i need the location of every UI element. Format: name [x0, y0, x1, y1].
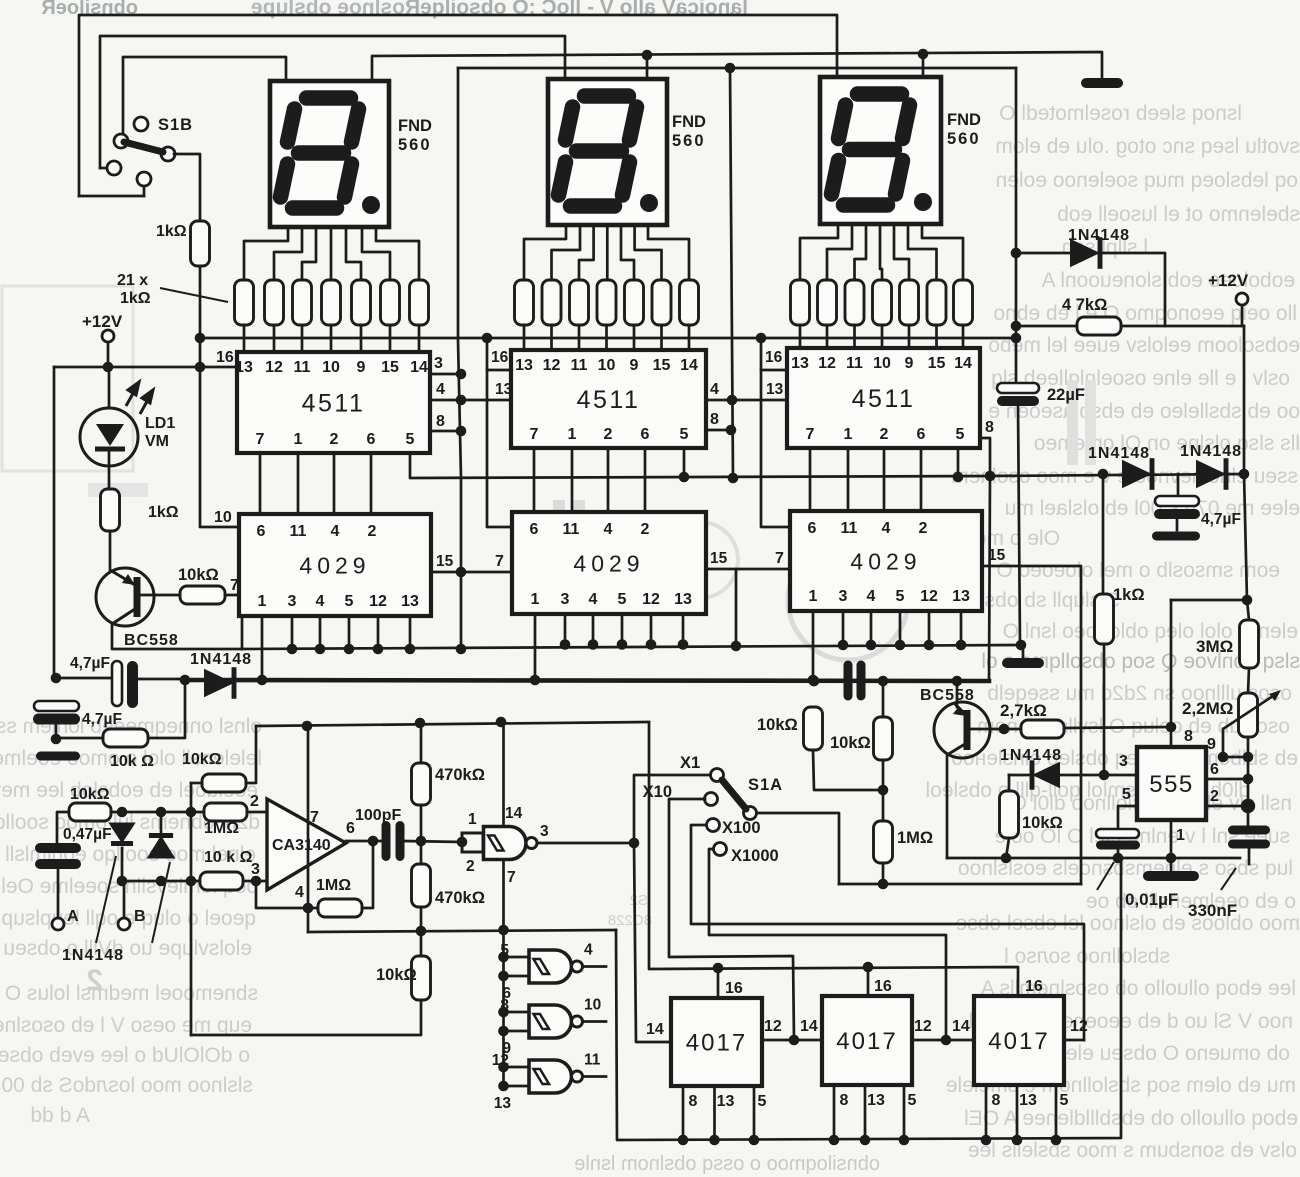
wire 4017#2 pin 8 to bottom bus [833, 1085, 836, 1140]
wire analog gnd rail (y=931) [308, 930, 616, 932]
resistor 1M (timing) [874, 821, 893, 863]
svg-text:11: 11 [294, 359, 311, 376]
junction dot left rail / clock line [51, 673, 62, 684]
svg-text:13: 13 [235, 359, 253, 376]
wire clock line thick segment [185, 680, 989, 681]
wire bank2 resistor #4 to 4511 [605, 325, 608, 350]
wire D-left to pin3 line [121, 848, 124, 881]
svg-text:10k Ω: 10k Ω [110, 753, 154, 770]
svg-text:11: 11 [290, 523, 307, 540]
wire 4511#3 pin 2 to 4029#3 pin 4 [883, 448, 886, 511]
wire 3M line to 555 pin8 riser [1171, 599, 1247, 602]
svg-text:4029: 4029 [299, 552, 370, 578]
wire VDD rail y=338 [200, 337, 1016, 340]
wire bank2 display pin 6 fan [635, 225, 662, 280]
junction dot pin3/x461 [456, 369, 467, 380]
wire bank1 display pin 6 fan [362, 227, 390, 280]
wire bank3 resistor #7 to 4511 [962, 325, 965, 350]
junction dot pin5 bus 4511#3 [953, 472, 964, 483]
svg-text:10kΩ: 10kΩ [830, 734, 871, 752]
svg-text:FND: FND [947, 111, 981, 129]
transistor Q2 BC558 (PNP) [934, 702, 990, 758]
svg-text:14: 14 [680, 357, 698, 374]
wire 1M to opamp pin2 [247, 811, 267, 814]
svg-text:4017: 4017 [836, 1028, 897, 1055]
wire BC558 base to 10k [137, 594, 180, 597]
wire bank2 display pin 2 fan [552, 225, 581, 280]
wire 4029#2 pin1 to clock line [534, 614, 537, 680]
junction dot U2b in1 [498, 952, 509, 963]
wire wiper to pot bottom [1223, 756, 1248, 759]
junction dot 4017#2 pin 13 bus [860, 1135, 871, 1146]
junction dot pin4 node [303, 903, 314, 914]
potentiometer 2.2M body [1239, 693, 1258, 737]
transistor Q1 BC558 (PNP) [96, 568, 154, 626]
wire 10k to 4029#1 pin7 [225, 594, 239, 597]
junction dot 4029#1 pin 4 bus [315, 644, 326, 655]
IC 4017 #1 (decade counter) [671, 998, 762, 1086]
wire bank3 display pin 3 fan [855, 224, 867, 280]
svg-text:2: 2 [1210, 788, 1219, 805]
resistor 1k bank bank3 #1 [791, 280, 810, 325]
svg-text:10: 10 [214, 509, 232, 526]
svg-text:eboq olluollo ob ebsbllldlenee: eboq olluollo ob ebsbllldlenee A OEl [964, 1107, 1298, 1130]
svg-text:slslnoo moo losлdoS sb 00SlOlU: slslnoo moo losлdoS sb 00SlOlUd [0, 1074, 253, 1097]
svg-text:X1: X1 [680, 754, 700, 772]
wire pin3 node down to feedback [256, 881, 318, 908]
wire feedback to output [362, 841, 373, 908]
wire 10k#1 to clock line [148, 680, 185, 738]
wire bank2 display pin 4 straight [606, 225, 609, 280]
wire S1B chain to 4029#1 pin10 [200, 367, 239, 527]
junction dot +12V column/diode line [1239, 469, 1250, 480]
junction dot 4017#3 pin 5 bus [1051, 1135, 1062, 1146]
wire 0.47uF to A terminal [57, 869, 60, 918]
wire 10kB bottom to 790 node [882, 760, 885, 790]
pin labels of 4511 #1 [235, 359, 428, 448]
junction dot 790/10kB column [878, 785, 889, 796]
gate U2a Schmitt NAND (pins 1,2 -> 3) [484, 827, 527, 860]
wire 10k#4 top [420, 931, 423, 956]
junction dot Q2 base node [999, 724, 1010, 735]
svg-text:4: 4 [436, 381, 445, 398]
svg-text:7: 7 [806, 426, 815, 443]
ghost box outline left edge [2, 286, 133, 471]
resistor 1k bank bank2 #3 [570, 280, 589, 325]
wire 555 pin5 to 0.01uF [1118, 806, 1137, 829]
svg-text:X10: X10 [643, 783, 672, 801]
wire 10k#2 left to bias column [191, 782, 202, 785]
wire bank2 resistor #7 to 4511 [688, 325, 691, 350]
diode 1N4148 D-left (down) [108, 823, 135, 844]
svg-text:1MΩ: 1MΩ [204, 820, 239, 837]
wire carry2 drop to gnd bus [735, 569, 738, 646]
svg-text:12: 12 [265, 359, 283, 376]
svg-text:BC558: BC558 [920, 687, 975, 704]
junction dot gate column / gnd rail [498, 925, 509, 936]
wire 4511#3 pin 1 to 4029#3 pin 11 [847, 448, 850, 511]
wire X10 routing [669, 799, 794, 1040]
resistor 1k bank bank3 #7 [954, 280, 973, 325]
junction dot 4029#3 pin1 clock line [808, 675, 819, 686]
pin labels 8/13/5 of 4017#2 [840, 1092, 917, 1109]
wire 10kB top to clock line [882, 681, 885, 717]
svg-text:5: 5 [956, 426, 965, 443]
switch S1B contact C [107, 161, 121, 175]
resistor 1k bank bank1 #1 [235, 280, 254, 325]
svg-text:7: 7 [530, 426, 539, 443]
wire bank3 display pin 5 fan [894, 224, 909, 280]
wire 4511#1 pin3 stub [430, 373, 461, 376]
junction dot pin8/2.7k [1166, 722, 1177, 733]
junction dot 4017#3 pin 8 bus [981, 1135, 992, 1146]
resistor 10k (Q2) [1000, 791, 1019, 838]
svg-text:1N4148: 1N4148 [190, 651, 252, 668]
resistor 1k bank bank2 #4 [597, 280, 616, 325]
svg-text:560: 560 [672, 132, 706, 150]
wire bank3 resistor #3 to 4511 [853, 325, 856, 350]
pin labels of 4029 #3 [808, 520, 970, 605]
junction dot clock/10kC column [878, 676, 889, 687]
svg-text:6: 6 [257, 523, 266, 540]
wire bias column x=191 [190, 783, 193, 1035]
svg-text:3: 3 [540, 823, 549, 840]
junction dot clock/10kA riser [809, 676, 820, 687]
diode 1N4148 (clock line) [204, 669, 234, 697]
svg-text:5: 5 [758, 1093, 767, 1110]
svg-text:0,47µF: 0,47µF [63, 826, 112, 843]
wire bank1 resistor #7 to 4511 [418, 325, 421, 352]
svg-text:14: 14 [646, 1021, 664, 1038]
svg-text:2: 2 [330, 431, 339, 448]
capacitor 22uF (solid plate) [997, 396, 1039, 406]
junction dot 4029#2 pin1 clock line [530, 675, 541, 686]
wire 47k to +12V [1121, 325, 1244, 328]
junction dot 4029#1 pin1 clock line [257, 675, 268, 686]
wire 4029#2 pin 13 to gnd bus [682, 614, 685, 645]
wire vertical x=461 (4511#1 pins 3/4/8 tie) [458, 68, 461, 649]
svg-text:10kΩ: 10kΩ [178, 566, 219, 584]
svg-text:2,7kΩ: 2,7kΩ [1000, 701, 1047, 720]
svg-text:2: 2 [368, 523, 377, 540]
7-segment display DISP3 (FND 560) [820, 77, 941, 224]
wire U2c input stub 1 [504, 1011, 530, 1014]
svg-text:4 7kΩ: 4 7kΩ [1062, 296, 1107, 314]
junction dot pin6/timing column [1243, 774, 1254, 785]
svg-text:1: 1 [1176, 827, 1185, 844]
wire 4029#1 pin8 stub to bus [241, 616, 244, 649]
svg-text:eom smsoslb o mel oloeoeo O: eom smsoslb o mel oloeoeo O [996, 559, 1280, 582]
capacitor 4.7uF series left (open plate) [112, 661, 122, 706]
wire 4511#2 pin 6 to 4029#2 pin 2 [644, 448, 647, 512]
svg-text:FND: FND [398, 117, 432, 135]
wire 4017#1 pin 5 to bottom bus [753, 1086, 756, 1140]
svg-text:11: 11 [584, 1052, 601, 1069]
svg-text:llo oelq eeonoqmo O e l eb ebn: llo oelq eeonoqmo O e l eb ebno [993, 302, 1297, 325]
svg-text:12: 12 [914, 1018, 932, 1035]
wire bank3 resistor #6 to 4511 [935, 325, 938, 350]
junction dot pin4#2/x730 [727, 395, 738, 406]
junction dot U2d in1 [498, 1062, 509, 1073]
wire 4029#1 pin15 to 4029#2 pin7 [431, 571, 512, 574]
capacitor (series on clock line right) [844, 661, 853, 701]
svg-text:1: 1 [468, 811, 477, 828]
wire diode to +12V corner [1016, 253, 1165, 326]
junction dot x1016 diode line [1011, 248, 1022, 259]
capacitor 0.01uF (solid plate) [1096, 841, 1140, 850]
wire bank3 resistor #1 to 4511 [799, 325, 802, 350]
IC 4017 #3 (decade counter) [974, 996, 1064, 1085]
svg-text:oq lebsloeq muq soelenoo eolen: oq lebsloeq muq soelenoo eolen [996, 169, 1298, 192]
resistor 10k #2 [202, 774, 246, 792]
wire bank2 display pin 7 fan [648, 225, 689, 280]
svg-text:3: 3 [434, 355, 443, 372]
junction dot rail338 x=487 [482, 333, 493, 344]
resistor 1k bank bank3 #3 [845, 280, 864, 325]
svg-text:4: 4 [295, 884, 304, 901]
ghost circle shape 1 [788, 540, 908, 660]
wire 4017#2 pin 5 to bottom bus [903, 1085, 906, 1140]
svg-text:13: 13 [401, 593, 419, 610]
capacitor 100pF [382, 821, 391, 861]
wire 2.7k to 555 pin8 [1064, 727, 1171, 728]
resistor 1k bank bank2 #6 [652, 280, 671, 325]
junction dot D-right bottom [156, 876, 167, 887]
switch S1B contact B [114, 134, 128, 148]
svg-text:svotlu lseq snc otog .olu eb e: svotlu lseq snc otog .olu eb elom [995, 135, 1300, 158]
svg-text:6: 6 [1210, 761, 1219, 778]
svg-text:+12V: +12V [1208, 271, 1249, 290]
pin labels of 4511 #3 [791, 355, 972, 443]
wire 4511#3 pin16 stub [761, 369, 787, 372]
svg-text:8: 8 [840, 1092, 849, 1109]
wire 555 pin3 stub [1104, 774, 1137, 777]
svg-text:15: 15 [928, 355, 946, 372]
wire clock line right end drop [989, 476, 990, 681]
diode 1N4148 (555 pin3) [1032, 762, 1060, 789]
svg-text:eup me oeso V l eb ososlnemlls: eup me oeso V l eb ososlnemlls [0, 1014, 252, 1037]
svg-text:1N4148: 1N4148 [1088, 445, 1150, 462]
capacitor 4.7uF vertical (solid plate) [33, 714, 80, 725]
terminal +12V right [1236, 293, 1248, 305]
svg-text:9: 9 [905, 355, 914, 372]
wire U2d input stub 1 [504, 1066, 530, 1069]
resistor 10k #3 (pin3) [200, 872, 243, 890]
svg-text:2: 2 [641, 521, 650, 538]
pointer line to D-right [152, 862, 170, 943]
svg-text:13: 13 [791, 355, 809, 372]
junction dot bias/pin3 line [186, 876, 197, 887]
resistor 1k bank bank1 #6 [381, 280, 400, 325]
wire left rail to 10k junction [55, 724, 58, 737]
svg-text:4029: 4029 [850, 548, 921, 574]
terminal B [118, 918, 130, 930]
svg-text:10kΩ: 10kΩ [1022, 814, 1063, 832]
wire 4511#2 pin4 to 4511#3 pin13 [706, 399, 787, 402]
svg-text:8: 8 [710, 411, 719, 428]
wire S1B throw1 horizontal to contact [79, 195, 144, 198]
resistor 1k bank bank1 #2 [265, 280, 284, 325]
junction dot 4017#3 pin 13 bus [1012, 1135, 1023, 1146]
svg-text:5: 5 [896, 588, 905, 605]
wire S1B throw2 horizontal to contact [100, 167, 108, 170]
svg-text:5: 5 [1060, 1092, 1069, 1109]
junction dot left rail 10k#1 [51, 734, 62, 745]
wire left rail upper segment [53, 367, 56, 678]
junction dot gnd bus right end [1016, 640, 1027, 651]
junction dot pin2/timing column [1241, 799, 1255, 813]
wire 4029#1 pin 3 to gnd bus [291, 616, 294, 649]
svg-text:11: 11 [563, 521, 580, 538]
svg-text:4,7µF: 4,7µF [82, 711, 122, 728]
svg-text:3: 3 [288, 593, 297, 610]
junction dot VDD 4017#2 [863, 962, 874, 973]
junction dot 470k2/gnd rail [416, 926, 427, 937]
wire gnd rail down to bottom bus [616, 858, 1121, 1140]
wire X1 node down to 4017#1 pin14 [634, 843, 671, 1042]
svg-text:1kΩ: 1kΩ [120, 290, 151, 307]
wire 4511 pin5 bus (y=478) [410, 453, 990, 478]
wire bank2 resistor #1 to 4511 [523, 325, 526, 350]
svg-text:12: 12 [642, 591, 660, 608]
wire input line to pin3 (y=881) [122, 880, 200, 883]
resistor 1k bank bank1 #3 [293, 280, 312, 325]
svg-text:1MΩ: 1MΩ [897, 829, 933, 847]
wire ground line y=858 [947, 857, 1240, 860]
resistor 1k bank bank3 #6 [927, 280, 946, 325]
resistor 3M [1240, 620, 1259, 668]
svg-text:6: 6 [367, 431, 376, 448]
wire bank1 resistor #2 to 4511 [273, 325, 276, 352]
wire +V rail (y=724) [256, 722, 647, 726]
wire bank1 display pin 7 fan [376, 227, 419, 280]
wire gnd bus right end to ground [1022, 645, 1025, 658]
wire clock line mid segment [138, 678, 185, 681]
svg-text:15: 15 [653, 357, 671, 374]
wire U2d input stub 2 [504, 1085, 530, 1088]
wire 4.7uF right gnd stem [1176, 519, 1179, 530]
terminal A [52, 918, 64, 930]
wire bank2 resistor #3 to 4511 [578, 325, 581, 350]
svg-text:13: 13 [867, 1092, 885, 1109]
svg-text:6: 6 [530, 521, 539, 538]
junction dot 4029#2 pin 4 bus [588, 639, 599, 650]
junction dot 4029#3 pin 4 bus [866, 640, 877, 651]
switch S1A contact X1000 [714, 843, 727, 856]
resistor 1k bank bank3 #4 [873, 280, 892, 325]
wire bank2 resistor #2 to 4511 [550, 325, 553, 350]
svg-text:0,01µF: 0,01µF [1125, 890, 1178, 909]
svg-text:13: 13 [494, 1095, 512, 1112]
pointer line 21x1k to resistor bank [160, 288, 228, 302]
svg-text:2,2MΩ: 2,2MΩ [1182, 699, 1233, 718]
wire bank2 display pin 3 fan [579, 225, 594, 280]
svg-text:5: 5 [618, 591, 627, 608]
wire input A corner [57, 812, 69, 843]
wire 555 pin2 stub [1206, 805, 1248, 808]
wire Q2 base to 2.7k [971, 728, 1021, 731]
junction dot clock2 [789, 1035, 800, 1046]
resistor 1k bank bank2 #2 [542, 280, 561, 325]
svg-text:8: 8 [1184, 728, 1193, 745]
wire latch bus through diode pair to +12V column [990, 474, 1244, 476]
svg-text:5: 5 [908, 1092, 917, 1109]
svg-text:11: 11 [841, 520, 858, 537]
wire pot wiper tie [1222, 729, 1225, 757]
junction dot bus-DISP3 stub [918, 49, 929, 60]
svg-text:12: 12 [492, 1052, 509, 1069]
svg-text:10: 10 [584, 997, 601, 1014]
junction dot 4017#1 pin 8 bus [678, 1135, 689, 1146]
junction dot 4017#2 pin 8 bus [829, 1135, 840, 1146]
svg-text:5: 5 [345, 593, 354, 610]
wire pin3 line mid segment [1060, 774, 1104, 777]
wire 4511#3 pin5 stub [957, 448, 960, 477]
svg-text:14: 14 [952, 1018, 970, 1035]
wire B terminal stem [123, 881, 126, 918]
wire bank2 display pin 5 fan [621, 225, 634, 280]
resistor 1k bank bank1 #4 [322, 280, 341, 325]
wire 4511#1 pin 6 to 4029#1 pin 2 [370, 453, 373, 514]
switch S1A contact X10 [705, 793, 718, 806]
wire 470k#1 to signal node [420, 805, 423, 841]
wire diode pair mid stem [1177, 474, 1180, 496]
junction dot 4029#3 pin 13 bus [956, 640, 967, 651]
svg-text:2: 2 [880, 426, 889, 443]
resistor 1k bank bank2 #1 [515, 280, 534, 325]
svg-text:1kΩ: 1kΩ [148, 504, 179, 521]
svg-text:sbnemooel medmsl lolus O lsdO: sbnemooel medmsl lolus O lsdO [0, 982, 258, 1005]
switch S1B contact A (unused) [134, 117, 148, 131]
svg-text:6: 6 [808, 520, 817, 537]
wire 4017#1 pin16 stub [717, 968, 720, 998]
svg-text:S2: S2 [630, 892, 648, 909]
ghost circle shape 2 [662, 522, 738, 598]
svg-text:12: 12 [764, 1018, 782, 1035]
svg-text:VM: VM [145, 433, 169, 450]
svg-text:6: 6 [641, 426, 650, 443]
diode 1N4148 pair B [1196, 460, 1226, 488]
wire 22uF down to gnd bus [1018, 406, 1020, 645]
switch S1A contact X100 [707, 819, 720, 832]
IC 555 timer [1137, 747, 1206, 820]
wire ground bus (4029 row) [242, 645, 1023, 649]
wire gate1 output to X1 node [537, 842, 634, 845]
svg-text:1N4148: 1N4148 [1180, 443, 1242, 460]
junction dot 4029#1 pin 13 bus [405, 644, 416, 655]
junction dot pin8/x461 [456, 426, 467, 437]
wire S1A pole to timing network [757, 813, 839, 884]
junction dot 4017#1 pin 13 bus [709, 1135, 720, 1146]
wire common-cathode bus DISP1..DISP3 to ground [372, 52, 1102, 81]
junction dot 4029#1 pin 3 bus [287, 644, 298, 655]
junction dot railV opamp pin7 [302, 721, 313, 732]
svg-text:8C228: 8C228 [608, 912, 652, 929]
LED LD1 VM [80, 408, 138, 466]
resistor 10k B (timing) [874, 717, 893, 760]
wire bank3 display pin 2 fan [827, 224, 852, 280]
junction dot 4029#3 pin 3 bus [838, 640, 849, 651]
wire X1 node to contact [634, 775, 711, 843]
wire 4029#1 pin 5 to gnd bus [348, 616, 351, 649]
LED light arrows [126, 382, 153, 414]
svg-text:10: 10 [598, 357, 616, 374]
svg-text:8: 8 [992, 1092, 1001, 1109]
wire 4017#2 pin12 to 4017#3 pin14 [912, 1039, 974, 1042]
resistor 10k A (timing) [804, 707, 823, 750]
ground symbol right of 4029#3 [1002, 658, 1044, 668]
svg-text:7: 7 [256, 431, 265, 448]
